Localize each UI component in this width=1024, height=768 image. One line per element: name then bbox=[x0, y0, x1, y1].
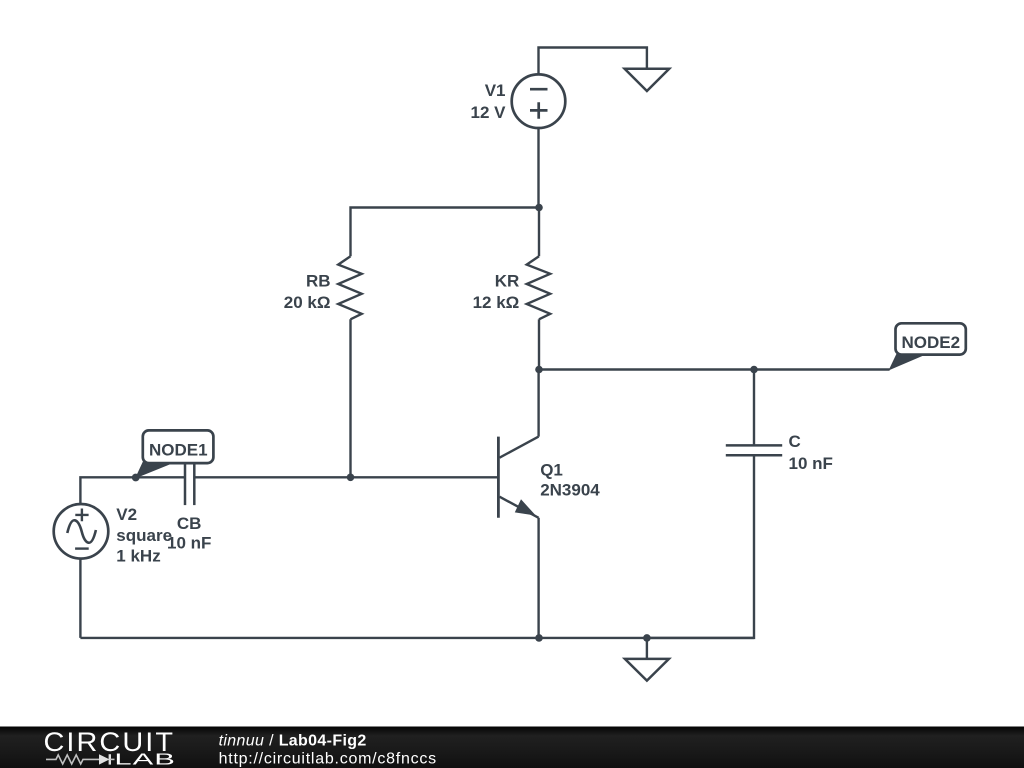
resistor KR zigzag bbox=[527, 256, 551, 319]
ground (bottom) bbox=[625, 659, 669, 681]
flag NODE2 box bbox=[896, 323, 966, 354]
transistor Q1 base bar bbox=[497, 437, 500, 518]
logo diode triangle bbox=[99, 754, 110, 764]
wire: collector lead up bbox=[537, 370, 539, 437]
svg-text:V2: V2 bbox=[116, 505, 137, 524]
node: junction dot emitter/bottom rail bbox=[535, 634, 543, 642]
wire: C top lead bbox=[753, 370, 755, 446]
capacitor C top plate bbox=[726, 444, 782, 447]
resistor RB zigzag bbox=[338, 256, 362, 319]
svg-text:NODE2: NODE2 bbox=[902, 333, 961, 352]
svg-text:12 kΩ: 12 kΩ bbox=[473, 293, 520, 312]
flag NODE1 box bbox=[143, 430, 214, 463]
svg-text:KR: KR bbox=[495, 272, 520, 291]
logo diode lead bbox=[110, 758, 115, 760]
svg-text:12 V: 12 V bbox=[471, 103, 507, 122]
V1 plus sign bbox=[530, 102, 548, 119]
voltage source V1 circle bbox=[512, 74, 566, 128]
wire: collector rail to NODE2 bbox=[539, 368, 890, 370]
wire: C bottom lead to bottom rail bbox=[647, 455, 754, 638]
V1 minus sign bbox=[530, 88, 548, 91]
node: junction dot C top bbox=[750, 366, 758, 374]
V2 sine symbol bbox=[67, 520, 96, 542]
flag NODE2 tail bbox=[890, 353, 925, 370]
svg-text:square: square bbox=[116, 526, 172, 545]
svg-text:tinnuu / Lab04-Fig2: tinnuu / Lab04-Fig2 bbox=[219, 733, 367, 750]
svg-text:CB: CB bbox=[177, 514, 202, 533]
ground (top right) bbox=[625, 69, 670, 91]
V2 plus sign bbox=[75, 509, 88, 522]
flag NODE1 tail bbox=[136, 461, 172, 478]
wire: bottom rail bbox=[80, 637, 754, 639]
svg-text:NODE1: NODE1 bbox=[149, 440, 208, 459]
capacitor C bottom plate bbox=[726, 454, 782, 457]
logo diode bar bbox=[109, 754, 111, 764]
footer bar bbox=[0, 727, 1024, 768]
wire: top rail from V1 plus to ground bbox=[539, 48, 647, 75]
voltage source V2 circle bbox=[54, 504, 109, 559]
wire: KR bottom lead to collector node bbox=[538, 319, 540, 369]
svg-text:V1: V1 bbox=[485, 81, 506, 100]
logo resistor-diode symbol bbox=[46, 755, 99, 764]
svg-text:2N3904: 2N3904 bbox=[540, 481, 600, 500]
wire: emitter lead down to bottom rail bbox=[537, 518, 539, 638]
wire: ground stub bottom bbox=[646, 638, 648, 659]
wire: upper rail to RB bbox=[351, 208, 540, 257]
svg-text:C: C bbox=[789, 432, 801, 451]
node: junction dot RB/base rail bbox=[347, 474, 355, 482]
svg-text:Q1: Q1 bbox=[540, 461, 563, 480]
capacitor CB right plate bbox=[193, 450, 196, 506]
transistor Q1 emitter diagonal bbox=[500, 497, 539, 518]
node: junction dot collector/KR bbox=[535, 366, 543, 374]
svg-text:http://circuitlab.com/c8fnccs: http://circuitlab.com/c8fnccs bbox=[219, 750, 437, 767]
transistor Q1 collector diagonal bbox=[500, 437, 539, 458]
svg-text:20 kΩ: 20 kΩ bbox=[284, 293, 331, 312]
transistor Q1 emitter arrowhead bbox=[516, 501, 534, 515]
svg-text:10 nF: 10 nF bbox=[789, 454, 833, 473]
V2 minus sign bbox=[75, 547, 89, 549]
wire: V1 bottom to upper rail node bbox=[537, 128, 539, 208]
svg-text:10 nF: 10 nF bbox=[167, 534, 211, 553]
node: junction dot V1/RB/KR rail bbox=[535, 204, 543, 212]
capacitor CB left plate bbox=[184, 450, 187, 506]
svg-text:RB: RB bbox=[306, 272, 331, 291]
wire: V2 bottom lead bbox=[79, 559, 81, 638]
wire: V2 top lead to base rail corner bbox=[80, 477, 185, 504]
wire: RB bottom lead to base rail bbox=[349, 319, 351, 477]
node: junction dot ground/bottom rail bbox=[643, 634, 651, 642]
node: junction dot NODE1 bbox=[132, 474, 140, 482]
wire: base rail CB to Q1 base bbox=[194, 476, 498, 478]
svg-text:1 kHz: 1 kHz bbox=[116, 547, 160, 566]
svg-text:LAB: LAB bbox=[114, 751, 176, 768]
wire: KR top lead bbox=[538, 208, 540, 257]
